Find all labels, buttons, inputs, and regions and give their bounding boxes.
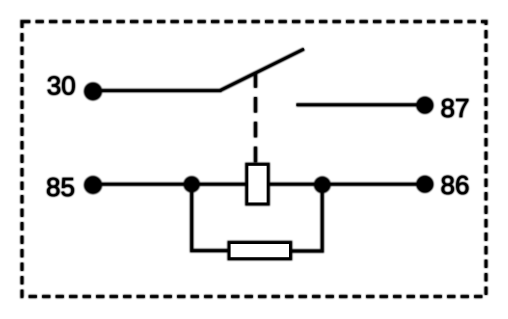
svg-text:86: 86 bbox=[441, 170, 470, 200]
svg-text:85: 85 bbox=[46, 172, 75, 202]
svg-text:87: 87 bbox=[441, 93, 470, 123]
svg-text:30: 30 bbox=[47, 71, 76, 101]
